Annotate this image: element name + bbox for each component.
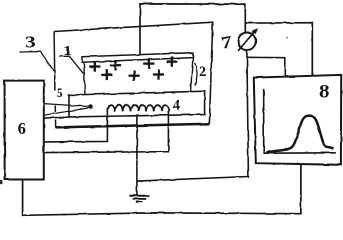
response curve (peak) bbox=[267, 116, 334, 153]
wire: coil centre tap to ground bbox=[136, 116, 138, 195]
probe 5 (dot and wedge leads) bbox=[44, 104, 93, 116]
ground symbol bbox=[129, 196, 149, 202]
wire: top electrode feed loop bbox=[140, 4, 245, 55]
label 2 with bracket bbox=[195, 63, 207, 86]
plus signs (ions in discharge) bbox=[89, 56, 178, 81]
svg-text:4: 4 bbox=[173, 97, 181, 113]
top electrode 1 (plate) bbox=[82, 53, 193, 63]
wire: bottom return bus (box6 to analyzer) bbox=[23, 165, 301, 216]
wire: meter bottom to ground bus bbox=[137, 50, 248, 181]
scan speck near meter bbox=[286, 37, 288, 39]
wire: box6 to electrode block bottom-left bbox=[44, 117, 69, 118]
svg-text:3: 3 bbox=[25, 33, 36, 52]
chamber bottom wall (thick) bbox=[56, 124, 210, 128]
wire: coil left end to box6 bbox=[44, 111, 108, 142]
axes inside analyzer bbox=[264, 89, 336, 153]
wire: meter node to analyzer, upper branch bbox=[245, 23, 312, 75]
svg-text:6: 6 bbox=[18, 119, 26, 138]
chamber 3 (vacuum vessel) bbox=[54, 22, 213, 128]
discharge gap side walls (region 2) bbox=[84, 62, 85, 94]
svg-text:8: 8 bbox=[319, 81, 330, 102]
lower electrode block bbox=[69, 91, 205, 117]
meter 7 (circle with arrow) bbox=[238, 28, 258, 51]
svg-text:5: 5 bbox=[57, 86, 63, 100]
label 3 with leader bbox=[20, 33, 54, 71]
wire: meter node to analyzer input bbox=[247, 57, 285, 76]
label 1 with leader bbox=[59, 44, 84, 74]
scan speck left edge bbox=[0, 180, 2, 184]
analyzer box 8 bbox=[254, 75, 341, 165]
wire: coil right end to box6 bbox=[44, 111, 168, 153]
generator box 6 bbox=[5, 81, 44, 180]
coil L4 bbox=[107, 105, 169, 111]
svg-text:2: 2 bbox=[199, 64, 207, 80]
chamber left wall (faded scan segments) bbox=[54, 32, 56, 128]
